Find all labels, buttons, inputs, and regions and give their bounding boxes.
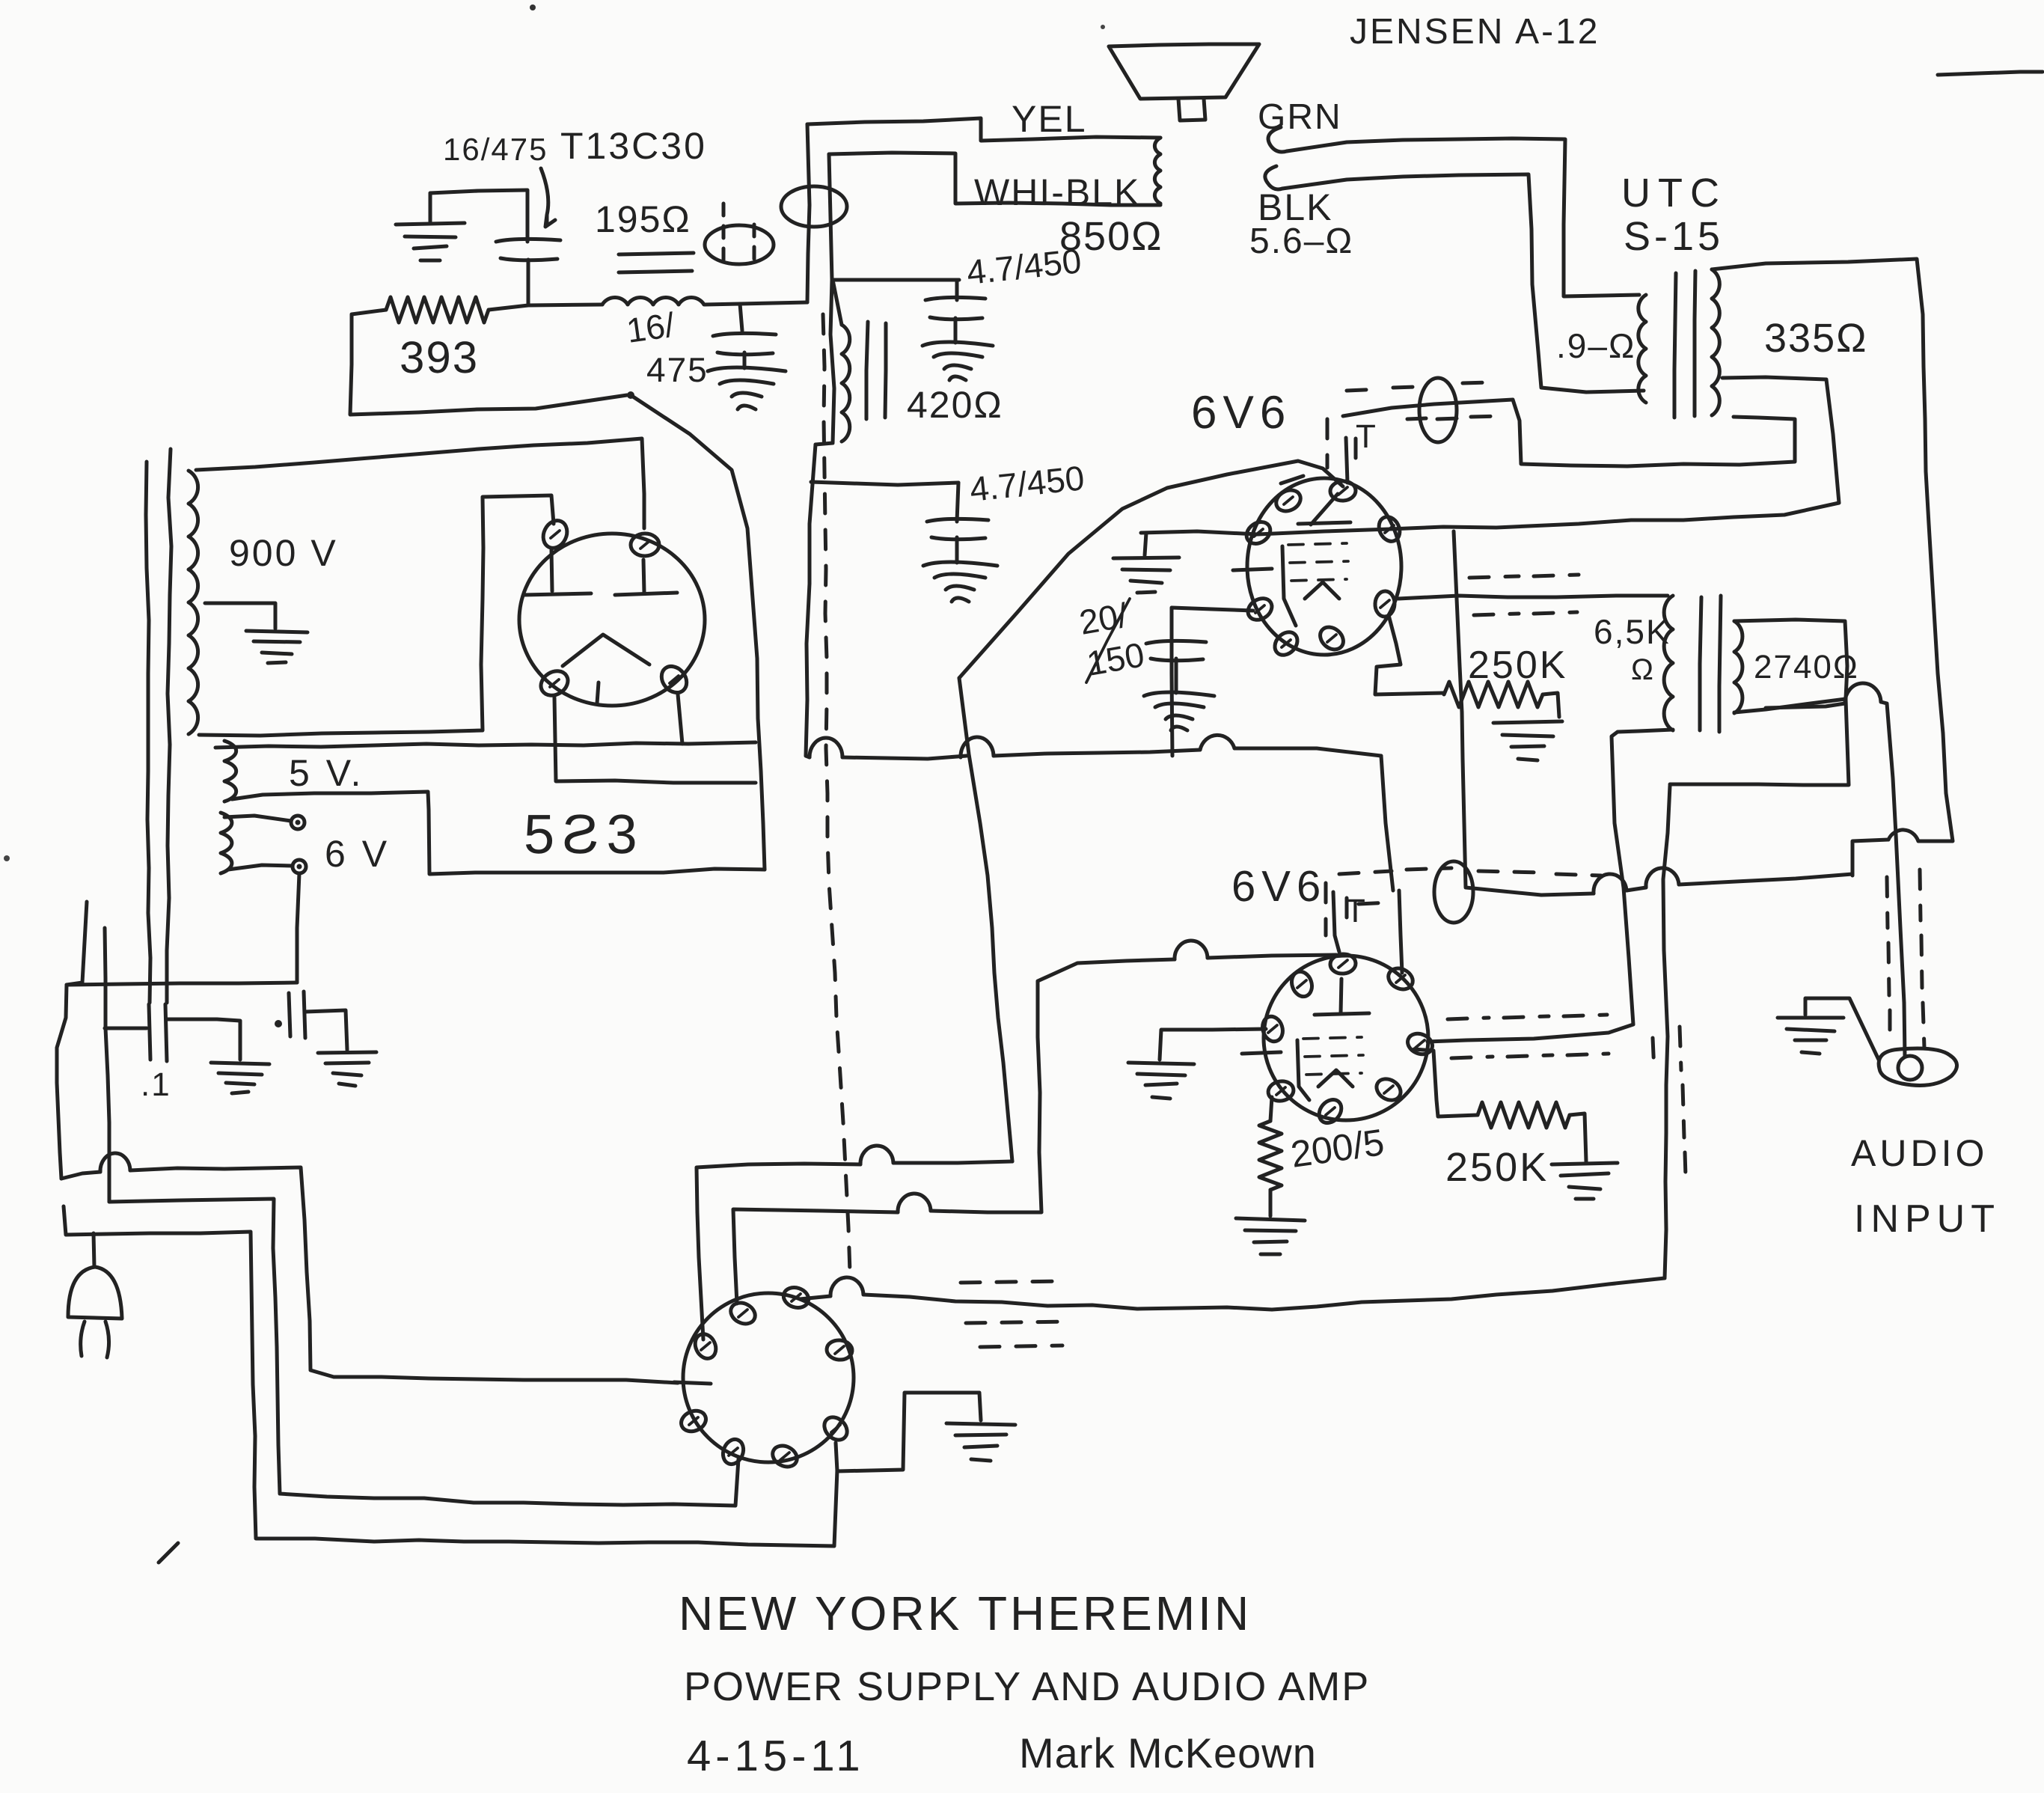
wire: 6.5K top lead from upper 6V6 cathode-side xyxy=(1398,596,1668,599)
wire: 335 top lead to right edge vertical xyxy=(1712,259,1953,841)
5Z3 pin filament1 xyxy=(536,666,572,700)
wire: link from AC vertical to C5 xyxy=(105,1027,147,1030)
wire: bus right end drop to lower 6V6 grid shield xyxy=(1381,756,1393,891)
wire: C4 bottom stem xyxy=(955,537,959,563)
socket pin 2 xyxy=(781,1284,811,1310)
wire: B+ bus drop to cap C2 xyxy=(740,304,742,331)
wire: audio ground link xyxy=(1805,998,1879,1060)
svg-text:2740Ω: 2740Ω xyxy=(1754,649,1859,685)
svg-text:WHI-BLK: WHI-BLK xyxy=(974,171,1140,213)
wire: 5Z3 filament2 stub xyxy=(678,694,682,744)
wire: GRN top wire from speaker to UTC xyxy=(1268,127,1287,152)
upper 6V6 pin bottom xyxy=(1316,623,1348,654)
wire: horizontal AC line at y1315 xyxy=(67,983,297,985)
upper 6V6 plate lead slant xyxy=(1311,494,1338,525)
lower 6V6 pin top xyxy=(1329,953,1356,975)
wire: C7 bottom stem xyxy=(1175,659,1178,693)
arrow from 16/475 label to C1 xyxy=(541,168,555,227)
wire: V2 top to 2740 winding bottom xyxy=(1670,700,1849,785)
wire: upper 250K right lead to ground xyxy=(1543,693,1559,717)
dashed verticals flanking heater riser xyxy=(1653,1027,1686,1176)
svg-text:INPUT: INPUT xyxy=(1854,1197,2001,1241)
wire: 6V winding to terminal 1 xyxy=(224,816,291,821)
wire: C1 top stem xyxy=(526,190,530,242)
rectifier tube 5Z3 envelope xyxy=(519,534,705,706)
wire: lower 6V6 cathode down to 200/5 xyxy=(1270,1097,1272,1121)
capacitor C6 .1 left plate xyxy=(289,993,290,1036)
lower 6V6 cathode L xyxy=(1297,1040,1309,1100)
wire: R1 right lead along B+ bus to choke xyxy=(489,305,602,310)
wire: C4 top stem xyxy=(957,483,958,522)
svg-text:420Ω: 420Ω xyxy=(907,384,1003,426)
lower 6V6 pin left xyxy=(1259,1014,1285,1044)
speaker terminal block xyxy=(1178,99,1205,120)
feed-through grommet E4 lower 6V6 xyxy=(1434,861,1473,923)
socket pin 7 xyxy=(769,1442,801,1471)
transformer T1 5V winding xyxy=(224,741,236,801)
wire: C6 right plate to ground xyxy=(305,1010,347,1050)
resistor R2 250K upper xyxy=(1444,682,1543,707)
wire: primary bottom lead WHI-BLK xyxy=(829,153,1160,205)
wire: antenna stub top right xyxy=(1938,72,2043,75)
resistor R1 393 ohm xyxy=(386,297,489,323)
capacitor C7 20/150 plates xyxy=(1146,641,1206,660)
octal socket J1 envelope xyxy=(683,1293,854,1462)
lower 6V6 plate stem xyxy=(1341,979,1341,1013)
svg-text:335Ω: 335Ω xyxy=(1764,316,1867,361)
wire: 900V center tap xyxy=(205,603,275,629)
5Z3 plate 2 bar xyxy=(643,560,644,593)
wire: 5V bottom lead into 5Z3 label loop xyxy=(232,792,765,874)
wire: AC vertical branch x140 xyxy=(105,928,109,1202)
upper 6V6 pin bottom-left xyxy=(1270,628,1302,660)
UTC core lines xyxy=(1674,273,1676,418)
5Z3 filament stem xyxy=(597,682,599,703)
lower 6V6 pin lower-right xyxy=(1373,1075,1405,1105)
upper 6V6 screen dashes xyxy=(1288,543,1348,581)
svg-text:900 V: 900 V xyxy=(229,532,338,574)
wire: C5 right plate to ground xyxy=(167,1019,240,1060)
ground for cap C2 xyxy=(743,352,747,368)
resistor R3 200/5 cathode xyxy=(1259,1121,1282,1190)
dashed chassis vertical D1 xyxy=(823,314,850,1272)
transformer T1 6V winding xyxy=(221,813,232,873)
feed-through grommet E3 upper 6V6 xyxy=(1419,378,1457,442)
6V terminal dot 1 xyxy=(291,816,305,829)
svg-text:6V6: 6V6 xyxy=(1191,387,1291,439)
upper 6V6 cathode L xyxy=(1282,546,1296,626)
wire: left AC vertical xyxy=(67,902,87,985)
upper 6V6 pin right-down xyxy=(1374,590,1395,617)
AC plug prong 2 xyxy=(105,1322,109,1357)
svg-text:AUDIO: AUDIO xyxy=(1851,1132,1988,1174)
svg-text:5 V.: 5 V. xyxy=(289,752,364,794)
power transformer T1 core line right xyxy=(167,449,171,1003)
5Z3 filament V xyxy=(563,635,649,666)
wire: 5V winding top lead to 5Z3 filament2 xyxy=(215,742,756,748)
wire: lower 6V6 screen to ground left xyxy=(1160,1029,1266,1060)
svg-text:475: 475 xyxy=(646,350,709,389)
svg-text:NEW YORK THEREMIN: NEW YORK THEREMIN xyxy=(679,1586,1252,1640)
grid hook mark upper 6V6 xyxy=(1281,476,1303,483)
ground for R3 xyxy=(1236,1218,1305,1254)
wire: grid shield solid line to 335 winding tap xyxy=(1343,400,1795,466)
capacitor C5 .1 right plate xyxy=(165,1004,167,1061)
svg-text:5Ƨ3: 5Ƨ3 xyxy=(524,803,645,865)
upper 6V6 pin upper-left xyxy=(1273,486,1304,516)
UTC secondary .9 ohm winding xyxy=(1638,295,1646,403)
interstage T3 primary 6.5K winding xyxy=(1664,596,1673,730)
wire: lower 6V6 grid-right to 250K lower xyxy=(1414,1049,1478,1117)
upper 6V6 pin top xyxy=(1329,480,1356,501)
5Z3 pin filament2 xyxy=(656,662,691,697)
ground for C6 xyxy=(318,1052,376,1086)
ground for 900V center tap xyxy=(246,631,307,663)
scanner speck mid xyxy=(1101,25,1105,29)
wire: grid riser from diagonal down to line A xyxy=(959,678,1012,1161)
5Z3 pin plate2 xyxy=(631,534,660,557)
wire: R3 bottom to ground xyxy=(1269,1190,1273,1216)
svg-text:.1: .1 xyxy=(141,1066,171,1103)
wire: 6V terminal 2 down to chassis ground xyxy=(297,873,299,983)
upper 6V6 grid cap wire xyxy=(1346,438,1347,483)
svg-text:195Ω: 195Ω xyxy=(595,198,691,240)
svg-text:T: T xyxy=(1345,893,1367,929)
wire: C3 top stem xyxy=(955,280,959,300)
choke L1 winding xyxy=(602,298,704,305)
scanner speck left xyxy=(4,855,10,861)
choke L1 T13C30 core lines xyxy=(619,253,694,254)
ground for R4 xyxy=(1552,1163,1618,1199)
svg-text:393: 393 xyxy=(400,332,479,382)
dashed rows from lower 6V6 to interstage xyxy=(1448,1015,1609,1058)
wire: speaker primary top lead YEL xyxy=(807,118,1160,141)
wire: 6V winding to terminal 2 xyxy=(228,865,293,870)
capacitor C2 16/475 plates xyxy=(713,333,776,354)
wire: heater line A from socket pin1 to grid riser xyxy=(697,1164,860,1340)
svg-text:6 V: 6 V xyxy=(325,833,390,875)
wire: B+ bus from choke to output transformer branch xyxy=(705,302,807,305)
wire: diagonal from R1 loop down to 5Z3 rectifier loop xyxy=(633,397,765,870)
ground for C3 xyxy=(922,342,993,380)
socket pin 3 xyxy=(691,1331,720,1362)
dashed shield lines to audio connector xyxy=(1887,870,1924,1048)
capacitor C5 .1 left plate xyxy=(149,1004,150,1060)
feed-through grommet E2 on primary left wire xyxy=(781,186,847,227)
socket left tick xyxy=(674,1382,711,1384)
wire: 2740 winding top lead xyxy=(1734,620,1847,712)
UTC primary 335 ohm winding xyxy=(1712,269,1719,415)
socket pin 6 xyxy=(720,1436,747,1467)
choke L2 core lines xyxy=(866,322,868,419)
wire: upper 6V6 cathode to 20/150 node xyxy=(1172,608,1253,756)
svg-text:16/475: 16/475 xyxy=(443,132,548,167)
wire: 900V bottom lead to 5Z3 plate 1 xyxy=(199,495,554,736)
dot near C6 xyxy=(275,1020,282,1027)
power transformer T1 core line left xyxy=(146,462,150,1003)
stray pencil tick lower left xyxy=(159,1543,178,1563)
transformer T1 secondary 900V winding xyxy=(189,471,198,734)
lower 6V6 pin lower-left xyxy=(1267,1079,1295,1103)
svg-text:JENSEN A-12: JENSEN A-12 xyxy=(1350,12,1600,52)
ground for C7 xyxy=(1144,692,1214,730)
lower 6V6 grid tick xyxy=(1242,1052,1281,1054)
svg-text:Ω: Ω xyxy=(1631,653,1655,686)
capacitor C3 4.7/450 plates xyxy=(925,297,985,319)
audio connector center xyxy=(1898,1056,1922,1080)
svg-text:Mark McKeown: Mark McKeown xyxy=(1019,1729,1317,1777)
choke L2 420 ohm winding xyxy=(842,325,850,442)
svg-text:S-15: S-15 xyxy=(1624,214,1724,259)
speaker cone Jensen A-12 xyxy=(1109,44,1259,99)
wire: branch from drop to cap C4 4.7/450 xyxy=(811,482,958,485)
scanner speck top xyxy=(530,4,536,10)
resistor R4 250K lower xyxy=(1478,1102,1570,1128)
svg-text:250K: 250K xyxy=(1445,1145,1549,1190)
wire: heater line C from socket pin2 right to lower right xyxy=(800,1296,830,1299)
upper 6V6 grid cap dashed shield xyxy=(1327,382,1499,468)
wire: branch to cap C3 4.7/450 xyxy=(832,278,959,282)
capacitor C1 16/475 plates xyxy=(496,239,560,260)
dashed heater marks near socket xyxy=(961,1281,1068,1347)
upper 6V6 cathode hat xyxy=(1305,582,1339,599)
ground for socket xyxy=(946,1423,1015,1461)
svg-text:5.6–Ω: 5.6–Ω xyxy=(1249,222,1353,261)
wire: upper 250K left lead from 6V6 pin xyxy=(1375,615,1444,694)
upper 6V6 pin left-down xyxy=(1244,594,1276,624)
capacitor C4 4.7/450 plates xyxy=(927,519,988,539)
socket pin 1 xyxy=(727,1299,759,1328)
wire: BLK bottom wire from speaker down to .9 winding bottom xyxy=(1265,166,1282,189)
wire: long bus with hop from choke drop to right xyxy=(806,756,810,757)
upper 6V6 pin right-up xyxy=(1375,513,1404,545)
capacitor C6 .1 right plate xyxy=(304,992,305,1038)
lower 6V6 cathode hat xyxy=(1318,1070,1353,1087)
6V terminal dot 2 xyxy=(293,860,306,873)
ground for upper 6V6 screen xyxy=(1113,558,1179,593)
upper 6V6 grid tick xyxy=(1233,569,1272,570)
svg-text:6,5K: 6,5K xyxy=(1594,612,1671,651)
svg-text:4-15-11: 4-15-11 xyxy=(687,1732,865,1780)
output transformer T2 primary winding 850 ohm xyxy=(1154,138,1160,204)
svg-text:6V6: 6V6 xyxy=(1231,862,1327,911)
svg-text:POWER SUPPLY AND AUDIO AMP: POWER SUPPLY AND AUDIO AMP xyxy=(684,1664,1370,1709)
lower 6V6 grid cap dashed shield xyxy=(1326,868,1601,935)
ground for R2 xyxy=(1493,721,1562,760)
svg-text:UTC: UTC xyxy=(1621,171,1727,216)
svg-text:16/: 16/ xyxy=(624,305,677,349)
wire: C1 bottom stem to B+ bus xyxy=(527,260,530,305)
wire: long diagonal from socket line to upper 6V6 grid cap xyxy=(959,461,1343,678)
wire: grid shield entry to upper-right pin xyxy=(1399,891,1402,973)
wire: socket pin8 to ground L xyxy=(836,1393,981,1471)
svg-text:20/: 20/ xyxy=(1077,595,1130,641)
dashed rows from 6.5K to upper 6V6 xyxy=(1469,575,1579,615)
svg-text:250K: 250K xyxy=(1468,644,1567,687)
wire: heater line B from socket pin2 up to lower 6V6 top pin xyxy=(733,1209,898,1304)
upper 6V6 plate bar xyxy=(1298,522,1350,524)
dashed chassis line through grommet E1 xyxy=(723,204,754,266)
5Z3 pin plate1 xyxy=(539,516,572,552)
feed-through grommet E1 on B+ drop xyxy=(705,225,774,264)
wire: WHI-BLK left vertical down to choke 420 bottom xyxy=(816,154,834,445)
wire: AC line 1 H1 with hop to socket xyxy=(61,1172,100,1179)
interstage T3 core lines xyxy=(1700,597,1701,730)
wire: screen chord line from ground through upper 6V6 to 335 outer exit xyxy=(1141,377,1839,534)
upper 6V6 pin left-up xyxy=(1243,518,1275,549)
junction dot at end of loop xyxy=(627,391,634,399)
socket pin 5 xyxy=(678,1407,709,1435)
ground for lower 6V6 screen xyxy=(1128,1063,1194,1099)
lower 6V6 pin bottom xyxy=(1315,1096,1346,1128)
wire: 6.5K bottom lead down to lower 6V6 line xyxy=(1428,730,1673,1042)
AC plug body xyxy=(68,1267,122,1319)
wire: choke bottom long drop to cathode bus xyxy=(806,445,816,756)
wire: screen line down right of tube to lower shield xyxy=(1454,531,1594,895)
ground for C4 xyxy=(923,562,997,602)
interstage T3 secondary 2740 winding xyxy=(1734,621,1742,713)
lower 6V6 envelope xyxy=(1264,956,1428,1120)
svg-text:.9–Ω: .9–Ω xyxy=(1556,326,1635,365)
ground for audio input xyxy=(1778,1018,1843,1054)
socket pin 4 xyxy=(826,1340,853,1361)
svg-text:T: T xyxy=(1356,418,1377,455)
wire: choke L2 top lead xyxy=(833,280,842,325)
wire: left vertical from YEL lead down to B+ bus xyxy=(807,124,810,302)
wire: plug stem to AC line xyxy=(94,1233,94,1267)
wire: AC line 2 H2 to socket xyxy=(109,1199,738,1506)
ground for cap C1 16/475 xyxy=(396,223,465,260)
svg-text:YEL: YEL xyxy=(1012,98,1087,140)
wire: 900V top lead to 5Z3 plate 2 xyxy=(196,439,644,528)
lower 6V6 screen dashes xyxy=(1303,1037,1363,1075)
wire: left loop of R1 (down-around rectangle) xyxy=(350,310,627,415)
wire: 5Z3 filament1 stub to loop edge xyxy=(554,697,756,783)
lower 6V6 pin upper-left xyxy=(1288,969,1315,1000)
wire: C3 bottom stem xyxy=(954,318,958,343)
AC plug prong 1 xyxy=(81,1322,85,1356)
lower 6V6 pin right xyxy=(1404,1030,1435,1057)
lower 6V6 plate bar xyxy=(1315,1013,1369,1015)
audio input connector xyxy=(1879,1048,1956,1085)
socket pin 8 xyxy=(820,1413,851,1444)
wire: filter cap C1 top lead to ground xyxy=(430,190,527,193)
wire: AC line 3 H3 to socket xyxy=(64,1206,837,1546)
wire: R4 right lead to ground xyxy=(1570,1114,1586,1161)
svg-text:T13C30: T13C30 xyxy=(560,125,707,167)
5Z3 plate 1 bar xyxy=(551,550,552,591)
lower 6V6 grid cap wire xyxy=(1333,892,1339,952)
lower 6V6 pin upper-right xyxy=(1385,965,1416,994)
wire: 2740 exit to audio input xyxy=(1766,703,1845,708)
ground for C5 xyxy=(211,1063,269,1093)
upper 6V6 envelope xyxy=(1247,478,1401,655)
